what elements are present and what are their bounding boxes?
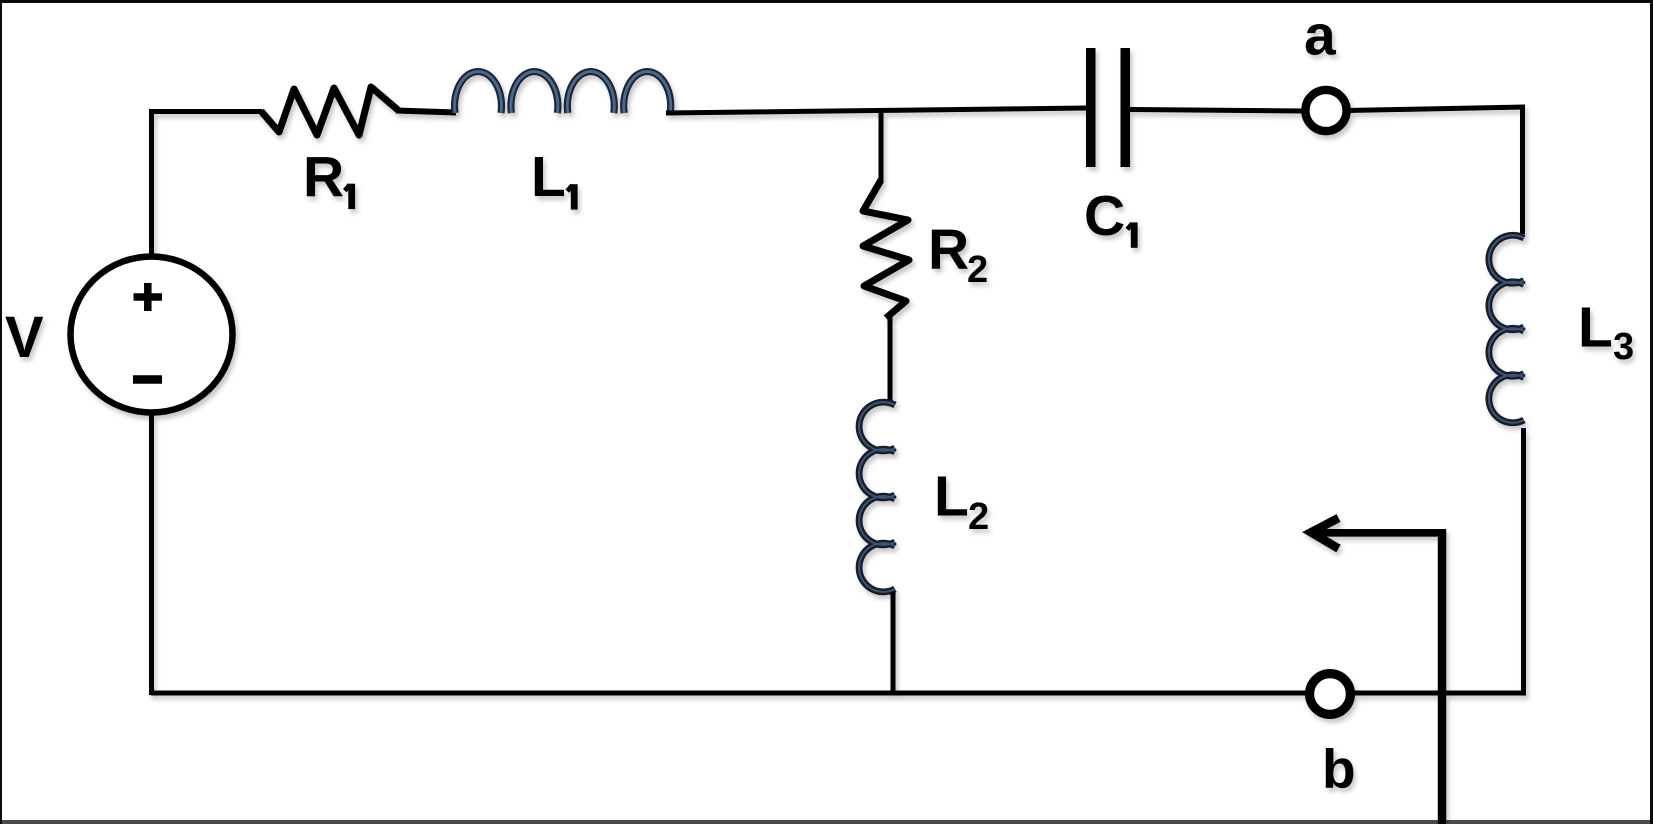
svg-text:V: V xyxy=(5,305,44,370)
wire: R2 to L2 xyxy=(888,316,893,406)
minus sign xyxy=(133,375,162,384)
voltage source V circle xyxy=(71,257,233,413)
wire: C1 to terminal a xyxy=(1130,110,1306,112)
capacitor C1 plate left xyxy=(1086,48,1096,167)
wire: R1 to L1 xyxy=(396,111,456,113)
terminal b xyxy=(1310,674,1351,715)
arrow horizontal shaft xyxy=(1317,529,1446,537)
wire: source bottom lead xyxy=(149,412,154,695)
resistor R1 xyxy=(261,87,398,135)
wire: terminal a to top-right corner xyxy=(1347,107,1525,111)
svg-text:3: 3 xyxy=(1613,326,1634,368)
svg-text:L: L xyxy=(934,465,969,529)
wire: top-left horizontal to R1 xyxy=(149,109,262,114)
wire: source top lead up to top-left corner xyxy=(149,109,154,256)
terminal a xyxy=(1305,90,1346,131)
inductor L3 xyxy=(1489,235,1524,423)
svg-text:a: a xyxy=(1304,4,1337,68)
capacitor C1 plate right xyxy=(1121,48,1131,167)
wire: bottom horizontal xyxy=(151,691,1526,696)
svg-text:R: R xyxy=(928,218,969,282)
wire: L3 down to bottom-right corner xyxy=(1521,428,1526,696)
arrow vertical shaft xyxy=(1438,534,1446,824)
svg-text:L: L xyxy=(531,145,566,209)
svg-text:2: 2 xyxy=(968,496,989,538)
svg-text:C: C xyxy=(1084,184,1125,248)
svg-text:R: R xyxy=(303,146,344,210)
inductor L1 xyxy=(455,72,671,113)
wire: right vertical down to L3 xyxy=(1520,108,1525,234)
wire: L1 to node and C1 xyxy=(666,108,1086,113)
inductor L2 xyxy=(859,402,895,592)
wire: L2 to bottom wire xyxy=(891,592,896,695)
svg-text:L: L xyxy=(1578,296,1613,360)
plus sign xyxy=(134,283,163,311)
svg-text:b: b xyxy=(1322,738,1356,800)
resistor R2 xyxy=(863,180,909,318)
arrowhead xyxy=(1311,518,1339,549)
svg-text:2: 2 xyxy=(967,249,988,291)
wire: node branch down xyxy=(879,109,884,181)
